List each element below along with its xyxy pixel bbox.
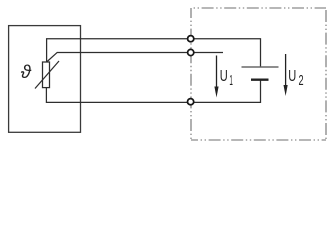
svg-text:2: 2 xyxy=(299,73,304,89)
svg-text:ϑ: ϑ xyxy=(21,61,32,82)
terminal 2 xyxy=(188,49,194,55)
wire middle (resistor top to terminal 2, open stub) xyxy=(47,52,223,62)
thermistor temperature-dependence diagonal xyxy=(35,61,59,89)
battery positive plate (long) xyxy=(242,66,279,68)
boundary box bottom edge (dash-dot) xyxy=(191,139,326,141)
terminal 3 xyxy=(188,99,194,105)
svg-text:U: U xyxy=(288,68,296,85)
wire bottom (resistor bottom to terminal 3 to battery minus) xyxy=(46,80,260,103)
thermistor body xyxy=(43,62,50,88)
svg-text:1: 1 xyxy=(229,73,233,89)
boundary box left edge (dash-dot, terminal strip line) xyxy=(190,8,192,140)
arrow U2 (source voltage) xyxy=(285,54,287,88)
wire top (resistor top to terminal 1 to battery plus) xyxy=(47,39,261,67)
enclosure box (sensor housing) xyxy=(9,26,81,133)
battery negative plate (short) xyxy=(251,78,269,80)
terminal 1 xyxy=(188,36,194,42)
svg-text:U: U xyxy=(220,68,228,85)
boundary box top edge (dash-dot) xyxy=(191,7,326,9)
boundary box right edge (dash-dot) xyxy=(325,8,327,140)
arrow U1 (voltage across terminals) xyxy=(216,56,218,90)
